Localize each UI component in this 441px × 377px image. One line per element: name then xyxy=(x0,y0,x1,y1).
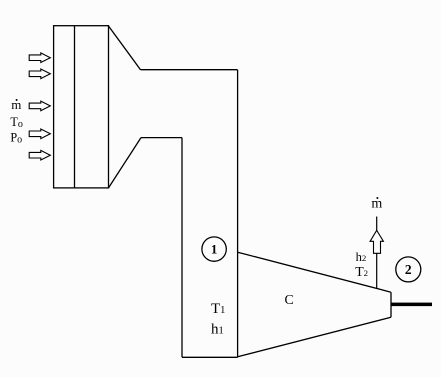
compressor shaft xyxy=(392,303,433,307)
node 2 circle xyxy=(396,257,421,282)
duct bottom wall xyxy=(182,356,238,358)
m-dot inlet dot xyxy=(16,99,18,101)
svg-text:1: 1 xyxy=(211,242,218,257)
diffuser top diagonal wall xyxy=(109,26,141,70)
compressor C bottom edge xyxy=(238,317,391,357)
inlet flow arrow 3 xyxy=(29,101,50,111)
compressor C outlet edge xyxy=(390,292,392,317)
duct inner left wall xyxy=(181,138,183,358)
svg-text:To: To xyxy=(10,115,22,130)
m-dot outlet dot xyxy=(376,197,378,199)
svg-text:T1: T1 xyxy=(211,301,225,317)
svg-text:h2: h2 xyxy=(356,250,367,264)
screen divider line xyxy=(74,26,76,188)
inlet flow arrow 4 xyxy=(29,129,50,139)
svg-text:Po: Po xyxy=(10,131,22,146)
compressor C top edge xyxy=(238,252,391,292)
duct inner top wall xyxy=(141,137,182,139)
duct right wall xyxy=(237,70,239,358)
outlet line lower segment xyxy=(376,253,378,289)
inlet flow arrow 1 xyxy=(29,53,50,63)
svg-text:T2: T2 xyxy=(355,264,368,279)
duct top wall xyxy=(141,69,238,71)
svg-text:2: 2 xyxy=(405,262,412,277)
outlet line upper segment xyxy=(376,217,378,232)
inlet flow arrow 2 xyxy=(29,69,50,79)
svg-text:C: C xyxy=(285,292,294,307)
diffuser bottom diagonal wall xyxy=(109,138,142,188)
outlet block arrow up xyxy=(370,230,383,253)
inlet screen rectangle xyxy=(54,26,109,188)
node 1 circle xyxy=(202,237,226,261)
inlet flow arrow 5 xyxy=(29,150,50,160)
svg-text:h1: h1 xyxy=(211,322,224,338)
